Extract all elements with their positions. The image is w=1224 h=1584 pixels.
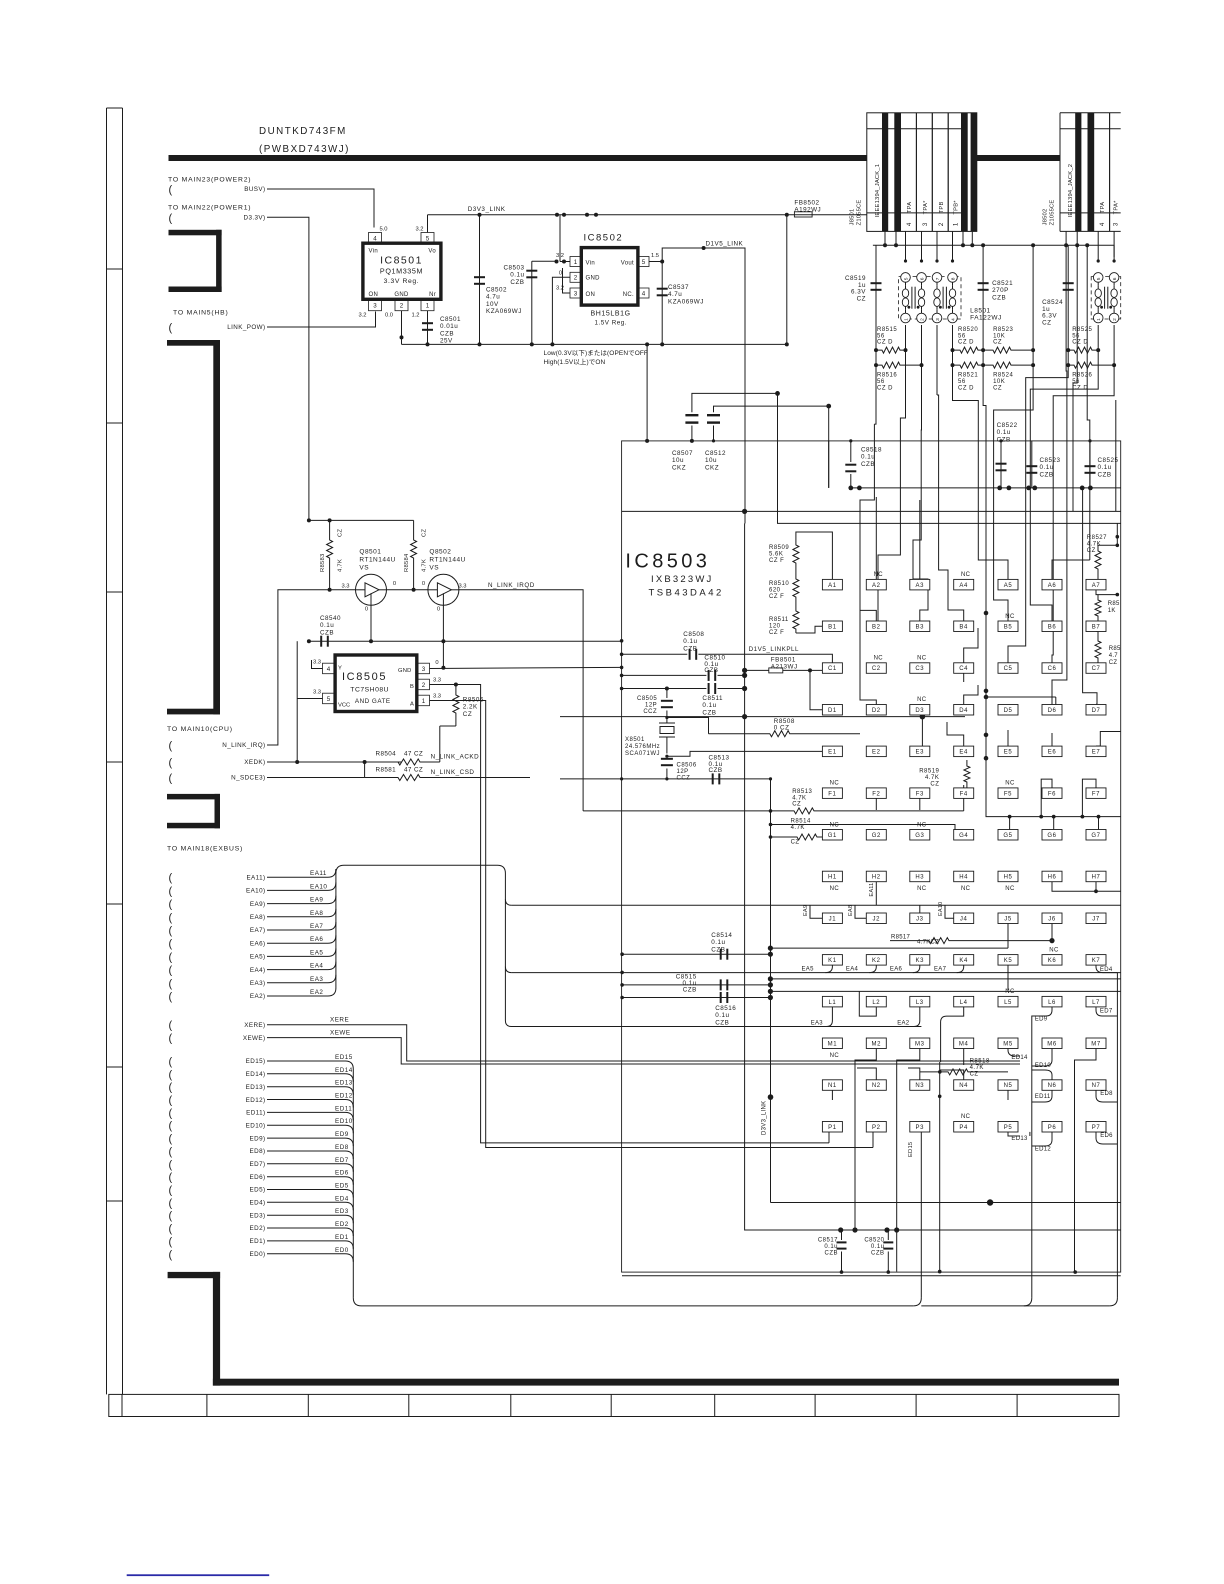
wire F6 jog to rail	[1041, 779, 1052, 817]
resistor R8516 56	[876, 362, 922, 368]
svg-text:CZB: CZB	[861, 461, 875, 468]
svg-text:(: (	[169, 1223, 173, 1235]
svg-text:ED7): ED7)	[250, 1161, 266, 1168]
svg-text:G1: G1	[828, 833, 837, 839]
svg-text:1.2: 1.2	[411, 313, 419, 319]
svg-text:ED2: ED2	[335, 1221, 349, 1228]
pin N2	[866, 1080, 886, 1091]
svg-text:A7: A7	[1092, 583, 1101, 589]
wire M2 M3 to rail	[855, 1049, 876, 1231]
svg-text:F2: F2	[872, 791, 880, 797]
svg-text:CZB: CZB	[683, 645, 697, 652]
svg-text:SCA071WJ: SCA071WJ	[625, 751, 660, 757]
svg-text:(: (	[169, 912, 173, 924]
svg-text:R8520: R8520	[958, 327, 978, 333]
svg-text:XEDK): XEDK)	[244, 759, 265, 766]
svg-text:ED13): ED13)	[246, 1084, 266, 1091]
wire x1073 into grid	[1072, 441, 1074, 512]
svg-text:CZ D: CZ D	[1072, 386, 1088, 392]
rail y716 D row	[560, 716, 965, 718]
pin M4	[954, 1038, 974, 1049]
capacitor C8522	[1000, 441, 1002, 488]
pin H7	[1086, 871, 1106, 882]
svg-text:CZB: CZB	[510, 279, 524, 286]
svg-text:B4: B4	[959, 625, 968, 631]
svg-text:RT1N144U: RT1N144U	[359, 557, 395, 564]
svg-text:270P: 270P	[992, 287, 1009, 294]
svg-text:IEEE1394_JACK_2: IEEE1394_JACK_2	[1068, 164, 1074, 218]
pin G7	[1086, 830, 1106, 841]
svg-text:R8581: R8581	[376, 767, 397, 774]
wire D3.3V	[267, 217, 309, 520]
svg-text:NC: NC	[1005, 886, 1015, 892]
wire N_LINK_IRQ	[267, 590, 356, 745]
svg-text:CZB: CZB	[709, 767, 723, 774]
svg-text:M7: M7	[1091, 1042, 1101, 1048]
svg-text:2: 2	[919, 318, 925, 321]
wire L6 tap ED9	[1032, 1007, 1052, 1020]
pin E4	[954, 746, 974, 757]
svg-text:TO MAIN22(POWER1): TO MAIN22(POWER1)	[168, 205, 251, 212]
svg-text:0.1u: 0.1u	[683, 638, 697, 645]
svg-text:EA10): EA10)	[246, 888, 266, 895]
capacitor C8503	[531, 261, 533, 344]
pin C2	[866, 663, 886, 674]
svg-text:D6: D6	[1048, 708, 1057, 714]
svg-text:P6: P6	[1048, 1125, 1057, 1131]
svg-text:TO MAIN18(EXBUS): TO MAIN18(EXBUS)	[167, 846, 243, 853]
svg-text:ED11: ED11	[335, 1105, 352, 1112]
svg-text:ED14: ED14	[335, 1067, 353, 1074]
pin M2	[866, 1038, 886, 1049]
pin B1	[822, 621, 842, 632]
wire ED6	[267, 1177, 353, 1185]
wire P1 net left	[828, 1132, 830, 1143]
wire ED11	[267, 1112, 353, 1120]
wire IC8505 pin2 to P1 net	[430, 685, 830, 1143]
pin D5	[998, 705, 1018, 716]
svg-text:H6: H6	[1048, 875, 1057, 881]
pin M6	[1042, 1038, 1062, 1049]
wire x921 into grid	[913, 441, 921, 579]
svg-text:TPA*: TPA*	[1114, 200, 1120, 214]
svg-text:E4: E4	[959, 750, 968, 756]
svg-text:E2: E2	[872, 750, 881, 756]
wire crystal bottom to E1	[667, 751, 823, 756]
svg-text:(: (	[169, 1197, 173, 1209]
wire crystal top to R8508	[667, 718, 709, 734]
wire EA11 tap to H2	[875, 882, 877, 906]
svg-text:NC: NC	[830, 822, 840, 828]
wire IC8505 pin1 to P2 net	[430, 701, 874, 1148]
wire IC8502 pin3 ON	[563, 268, 571, 293]
pin J3	[910, 913, 930, 924]
wire EA10	[267, 882, 336, 890]
svg-text:4.7K: 4.7K	[970, 1065, 984, 1071]
svg-text:Y: Y	[338, 666, 342, 672]
pin G3	[910, 830, 930, 841]
pin N7	[1086, 1080, 1106, 1091]
svg-text:0.1u: 0.1u	[861, 454, 875, 461]
transformer jack2 unit	[1091, 277, 1121, 319]
svg-text:3: 3	[1113, 222, 1120, 226]
svg-text:R8584: R8584	[404, 553, 410, 572]
svg-text:R8515: R8515	[877, 327, 897, 333]
svg-text:ED0: ED0	[335, 1247, 349, 1254]
svg-text:EA8): EA8)	[250, 914, 266, 921]
svg-text:3.3: 3.3	[458, 584, 466, 590]
svg-text:4.7u: 4.7u	[486, 294, 500, 301]
svg-text:CZB: CZB	[702, 709, 716, 716]
pin C5	[998, 663, 1018, 674]
rail C8515 y984	[622, 984, 770, 986]
svg-text:G3: G3	[915, 833, 924, 839]
pin P2	[866, 1122, 886, 1133]
wire ED12	[267, 1100, 353, 1108]
svg-text:C8518: C8518	[861, 447, 882, 454]
svg-text:A4: A4	[959, 583, 968, 589]
wire K7 tap ED4	[1096, 965, 1117, 973]
svg-text:AND GATE: AND GATE	[355, 698, 391, 705]
svg-text:ED10: ED10	[1035, 1063, 1052, 1069]
capacitor C8517	[841, 1230, 843, 1240]
pin B6	[1042, 621, 1062, 632]
pin H5	[998, 871, 1018, 882]
wire ED13	[267, 1087, 353, 1095]
svg-text:M5: M5	[1003, 1042, 1013, 1048]
svg-text:R8509: R8509	[769, 545, 789, 551]
svg-text:XERE): XERE)	[244, 1022, 265, 1029]
svg-text:ED5: ED5	[335, 1183, 349, 1190]
svg-text:4: 4	[327, 666, 331, 673]
svg-text:(: (	[169, 1033, 173, 1045]
capacitor C8523	[1031, 441, 1033, 488]
capacitor C8519	[875, 245, 877, 350]
svg-text:CZ: CZ	[791, 840, 800, 846]
wire F4 up	[963, 785, 965, 788]
svg-text:CZ: CZ	[930, 782, 939, 788]
wire transistor emitters to gnd line	[370, 605, 372, 641]
pin G2	[866, 830, 886, 841]
wire D4 jog	[964, 685, 978, 704]
resistor R8521 56	[953, 362, 984, 368]
wire x900 into grid B2 jog	[878, 441, 900, 611]
capacitor C8524	[1067, 245, 1069, 350]
svg-text:1: 1	[952, 222, 959, 226]
svg-text:G7: G7	[1091, 833, 1100, 839]
svg-text:56: 56	[958, 333, 966, 339]
svg-text:3.2: 3.2	[415, 227, 423, 233]
page frame left border column	[106, 108, 108, 1394]
svg-text:NC: NC	[874, 656, 884, 662]
pin K4	[954, 955, 974, 966]
svg-text:P2: P2	[872, 1125, 881, 1131]
svg-text:47 CZ: 47 CZ	[404, 767, 423, 774]
pin B2	[866, 621, 886, 632]
svg-text:(: (	[169, 322, 173, 334]
wire E7 tap	[1096, 732, 1121, 747]
svg-text:NC: NC	[830, 781, 840, 787]
svg-text:R8504: R8504	[376, 751, 397, 758]
board edge thick bar bottom L	[168, 1272, 221, 1278]
svg-text:NC: NC	[1005, 614, 1015, 620]
wire P2 net left	[872, 1132, 874, 1148]
svg-text:EA2): EA2)	[250, 993, 266, 1000]
pin B5	[998, 621, 1018, 632]
svg-text:C8516: C8516	[715, 1005, 736, 1012]
IC8505 pin 4	[323, 663, 335, 674]
wire N_LINK_IRQD	[459, 590, 583, 811]
svg-text:4.7: 4.7	[1109, 653, 1119, 659]
svg-text:0.1u: 0.1u	[824, 1244, 838, 1250]
rail GND bottom under IC8501	[402, 343, 787, 345]
svg-text:(PWBXD743WJ): (PWBXD743WJ)	[259, 144, 350, 155]
svg-text:(: (	[169, 951, 173, 963]
wire XERE	[267, 1025, 1020, 1061]
wire y824 to G4	[771, 825, 964, 831]
svg-text:D3V3_LINK: D3V3_LINK	[468, 206, 506, 213]
svg-text:N2: N2	[872, 1083, 881, 1089]
wire ED9	[267, 1138, 353, 1146]
svg-text:EA7: EA7	[934, 967, 947, 973]
wire N1 N2 N3 jogs	[831, 1090, 833, 1100]
pin C6	[1042, 663, 1062, 674]
svg-text:ED1: ED1	[335, 1234, 349, 1241]
svg-text:24.576MHz: 24.576MHz	[625, 744, 660, 750]
svg-text:CZ: CZ	[857, 295, 866, 302]
svg-text:CZB: CZB	[715, 1019, 729, 1026]
svg-text:3: 3	[922, 222, 929, 226]
svg-text:C8502: C8502	[486, 287, 507, 294]
resistor R8528 4.7 col7	[1095, 631, 1101, 662]
svg-text:3.3V Reg.: 3.3V Reg.	[384, 278, 420, 285]
wire E5 E6	[1007, 730, 1009, 746]
svg-text:(: (	[169, 1069, 173, 1081]
svg-text:(: (	[169, 1249, 173, 1261]
svg-text:ED7: ED7	[335, 1157, 349, 1164]
svg-text:A3: A3	[916, 583, 925, 589]
svg-text:N_LINK_IRQD: N_LINK_IRQD	[488, 582, 535, 589]
pin P4	[954, 1122, 974, 1133]
svg-text:E7: E7	[1092, 750, 1101, 756]
rail y1230	[745, 523, 1121, 1230]
pin E3	[910, 746, 930, 757]
svg-text:5.6K: 5.6K	[769, 552, 783, 558]
pin M5	[998, 1038, 1018, 1049]
rail y779 bottom of crystal block	[560, 778, 771, 780]
svg-text:NC: NC	[917, 886, 927, 892]
pin P5	[998, 1122, 1018, 1133]
wire E4	[947, 722, 964, 746]
svg-text:J5: J5	[1004, 916, 1012, 922]
svg-text:CZ: CZ	[1109, 660, 1118, 666]
svg-text:1K: 1K	[1108, 608, 1116, 614]
svg-text:IC8505: IC8505	[342, 671, 387, 683]
pin A7	[1086, 579, 1106, 590]
capacitor C8512 10u CKZ	[713, 426, 715, 441]
svg-text:D4: D4	[959, 708, 968, 714]
wire vertical x828 to C8518	[828, 406, 830, 488]
svg-text:10V: 10V	[486, 301, 499, 308]
wire M6 tap ED10	[1032, 1049, 1052, 1067]
pin C4	[954, 663, 974, 674]
rail D3V3 vertical x770	[770, 779, 772, 1203]
svg-text:B7: B7	[1092, 625, 1101, 631]
pin G5	[998, 830, 1018, 841]
pin G1	[822, 830, 842, 841]
svg-text:R8519: R8519	[919, 769, 939, 775]
rail long y511	[622, 510, 1121, 512]
wire J3 jog	[919, 905, 921, 913]
svg-text:L8501: L8501	[970, 308, 991, 315]
svg-text:3: 3	[574, 290, 578, 297]
IC8502 pin 3	[570, 288, 581, 298]
svg-text:G6: G6	[1047, 833, 1056, 839]
pin M3	[910, 1038, 930, 1049]
IC8501 pin 1	[421, 300, 434, 311]
svg-text:5: 5	[903, 277, 909, 280]
svg-text:4: 4	[642, 290, 646, 297]
svg-text:C8512: C8512	[705, 450, 726, 457]
svg-text:ON: ON	[586, 292, 596, 298]
svg-text:ED4: ED4	[335, 1195, 349, 1202]
svg-text:0: 0	[422, 581, 425, 587]
svg-text:0.1u: 0.1u	[320, 622, 334, 629]
pin J7	[1086, 913, 1106, 924]
wire EA8	[267, 909, 336, 917]
svg-text:ED9: ED9	[1035, 1016, 1048, 1022]
svg-text:3.3: 3.3	[313, 660, 321, 666]
svg-text:A213WJ: A213WJ	[771, 664, 798, 671]
svg-text:ED15: ED15	[335, 1054, 353, 1061]
pin N6	[1042, 1080, 1062, 1091]
svg-text:3.3: 3.3	[313, 690, 321, 696]
wire x874 into grid	[860, 441, 876, 621]
pin A6	[1042, 579, 1062, 590]
svg-text:GND: GND	[586, 276, 601, 282]
svg-text:6: 6	[919, 277, 925, 280]
svg-text:K7: K7	[1092, 958, 1101, 964]
wire x1053 into grid C6	[1052, 441, 1053, 663]
svg-text:(: (	[169, 1056, 173, 1068]
pin A5	[998, 579, 1018, 590]
svg-text:4.7K: 4.7K	[338, 559, 344, 572]
svg-text:3: 3	[422, 666, 426, 673]
svg-text:0: 0	[437, 607, 440, 613]
svg-text:NC: NC	[961, 1114, 971, 1120]
svg-text:Vin: Vin	[586, 261, 595, 267]
pin C7	[1086, 663, 1106, 674]
wire M5 tap ED14	[1008, 1049, 1020, 1057]
svg-text:CZB: CZB	[320, 629, 334, 636]
svg-text:F7: F7	[1092, 791, 1100, 797]
svg-text:J7: J7	[1092, 916, 1100, 922]
svg-text:CZB: CZB	[992, 294, 1006, 301]
wire ED1	[267, 1241, 353, 1249]
svg-text:EA4: EA4	[310, 963, 323, 970]
svg-text:A6: A6	[1048, 583, 1057, 589]
svg-text:0.0: 0.0	[385, 313, 393, 319]
svg-text:F4: F4	[960, 791, 968, 797]
svg-text:4: 4	[906, 222, 913, 226]
wire x744 D1V5 vertical continues	[744, 511, 746, 523]
svg-text:3.2: 3.2	[358, 313, 366, 319]
svg-text:EA5: EA5	[802, 967, 815, 973]
svg-text:8: 8	[950, 277, 956, 280]
IC8501 pin 3	[369, 300, 382, 311]
pin J4	[954, 913, 974, 924]
wire L4 to N4 net	[941, 1007, 964, 1062]
wire EA9 tap to J1	[810, 905, 822, 918]
svg-text:N_LINK_IRQ): N_LINK_IRQ)	[222, 742, 265, 749]
svg-text:ED15): ED15)	[246, 1058, 266, 1065]
IC8505 pin 5	[323, 693, 335, 704]
svg-text:3.3: 3.3	[433, 694, 441, 700]
svg-text:F5: F5	[1004, 791, 1012, 797]
svg-text:3: 3	[935, 318, 941, 321]
svg-text:3: 3	[373, 303, 377, 310]
svg-text:NC: NC	[917, 656, 927, 662]
svg-text:NC: NC	[830, 886, 840, 892]
svg-text:CZ: CZ	[993, 340, 1002, 346]
svg-text:CZB: CZB	[683, 987, 697, 994]
pin H6	[1042, 871, 1062, 882]
svg-text:C8514: C8514	[711, 932, 732, 939]
connector bracket MAIN22	[169, 230, 222, 236]
wire A3 up	[919, 500, 921, 579]
svg-text:0.1u: 0.1u	[715, 1012, 729, 1019]
svg-text:C8503: C8503	[503, 265, 524, 272]
svg-text:VCC: VCC	[338, 703, 350, 709]
wire ED5	[267, 1190, 353, 1198]
IC8505 pin 1	[418, 695, 430, 706]
svg-text:J1: J1	[829, 916, 837, 922]
svg-text:CZB: CZB	[997, 436, 1011, 443]
wires jack2 pins down	[1065, 231, 1067, 245]
wire H6 H7 row	[1052, 882, 1121, 892]
svg-text:C8540: C8540	[320, 615, 341, 622]
svg-text:Vo: Vo	[428, 249, 436, 255]
svg-text:2.2K: 2.2K	[463, 704, 478, 711]
svg-text:4: 4	[373, 235, 377, 242]
svg-text:47 CZ: 47 CZ	[404, 751, 423, 758]
svg-text:1: 1	[426, 303, 430, 310]
svg-text:G2: G2	[872, 833, 881, 839]
svg-text:TPA: TPA	[1100, 202, 1106, 213]
svg-text:CZ F: CZ F	[769, 594, 784, 600]
svg-text:C2: C2	[872, 666, 881, 672]
svg-text:A: A	[410, 702, 414, 708]
svg-text:CKZ: CKZ	[705, 464, 719, 471]
svg-text:NC: NC	[961, 572, 971, 578]
IC8502 pin 2	[570, 272, 581, 282]
svg-text:EA6: EA6	[890, 967, 903, 973]
rail y675 C8510	[622, 674, 707, 676]
svg-text:L2: L2	[872, 1000, 880, 1006]
pin B7	[1086, 621, 1106, 632]
svg-text:ED13: ED13	[335, 1080, 353, 1087]
svg-text:C3: C3	[915, 666, 924, 672]
svg-text:ED12: ED12	[335, 1093, 353, 1100]
wire BUSV	[267, 189, 374, 228]
svg-text:K2: K2	[872, 958, 881, 964]
svg-text:4.7K: 4.7K	[792, 795, 806, 801]
svg-text:H3: H3	[915, 875, 924, 881]
svg-text:N3: N3	[915, 1083, 924, 1089]
svg-text:0.1u: 0.1u	[997, 429, 1011, 436]
svg-text:TO MAIN23(POWER2): TO MAIN23(POWER2)	[168, 177, 251, 184]
wire IC8501 pin5 to D3V3 rail	[427, 215, 429, 233]
